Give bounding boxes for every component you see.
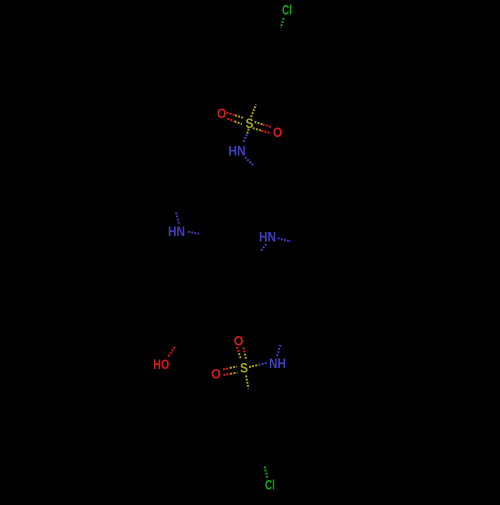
svg-text:HN: HN	[259, 229, 276, 245]
svg-text:HN: HN	[168, 223, 185, 239]
svg-text:Cl: Cl	[282, 2, 292, 18]
svg-text:NH: NH	[269, 355, 286, 371]
svg-text:O: O	[211, 366, 221, 382]
svg-text:Cl: Cl	[265, 477, 275, 493]
svg-text:O: O	[234, 333, 244, 349]
svg-text:S: S	[246, 115, 254, 131]
svg-text:HO: HO	[153, 356, 169, 372]
svg-text:O: O	[273, 124, 282, 140]
svg-text:O: O	[217, 105, 226, 121]
svg-text:HN: HN	[228, 142, 245, 158]
svg-text:S: S	[240, 360, 248, 376]
